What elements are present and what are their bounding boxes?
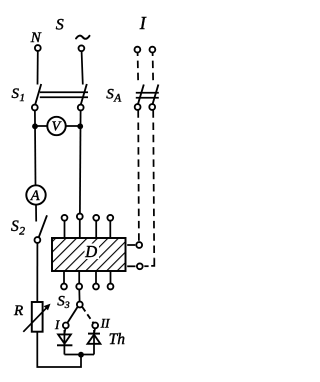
box D top terminal 1 (62, 215, 68, 221)
wire ammeter to S2 (35, 205, 37, 222)
box D bottom terminal 4 (110, 271, 112, 284)
switch S3 lever to position I (solid) (67, 307, 77, 323)
terminal N (35, 45, 41, 51)
box D right terminal lower (127, 265, 135, 267)
switch S2 contact (35, 237, 41, 243)
thyristor right (conducting up) (94, 329, 95, 334)
voltmeter V (47, 117, 65, 135)
switch S3 contact II (92, 323, 98, 329)
svg-text:N: N (30, 30, 42, 46)
wire dashed SA-right down to corner (153, 110, 154, 258)
svg-text:R: R (13, 303, 23, 319)
wire dashed SA-left down to upper right terminal (137, 110, 140, 242)
box D (phase control unit) (52, 238, 126, 271)
wire voltmeter to right rail (66, 125, 80, 127)
svg-text:I: I (139, 13, 147, 33)
ammeter A (26, 185, 45, 204)
wire S2 to resistor R (36, 243, 38, 302)
terminal I-right (150, 47, 156, 53)
svg-text:Th: Th (109, 331, 126, 348)
switch S1 lever left (35, 84, 41, 105)
svg-text:II: II (100, 315, 110, 330)
switch S1 contact left (32, 105, 38, 111)
wire corner into lower right terminal (151, 258, 154, 266)
junction dot below thyristors (78, 352, 84, 358)
svg-text:S: S (56, 16, 64, 33)
svg-text:D: D (84, 242, 97, 261)
switch S1 link bars (40, 91, 88, 93)
svg-text:V: V (52, 120, 62, 135)
switch S3 pivot (77, 302, 83, 308)
box D bottom terminal 3 (95, 271, 97, 284)
box D bottom terminal 1 (63, 271, 65, 284)
wire S1-left down to ammeter (34, 111, 37, 185)
resistor R (adjustable) (32, 302, 43, 332)
switch S1 lever right (81, 84, 87, 105)
box D top terminal 4 (107, 215, 113, 221)
switch SA lever left (138, 85, 144, 105)
switch S3 lever to position II (dashed) (82, 307, 93, 323)
box D bottom terminal 2 (78, 271, 80, 284)
box D right terminal upper (127, 244, 135, 246)
svg-text:I: I (54, 317, 60, 332)
wire dashed I-left to SA (137, 53, 140, 85)
switch S1 contact right (78, 105, 84, 111)
box D top terminal 3 (93, 215, 99, 221)
wire S1-right down to box D (79, 111, 82, 214)
wire terminal2 to S3 pivot (78, 290, 80, 302)
svg-text:A: A (30, 188, 40, 204)
wire joining thyristor cathodes (64, 354, 94, 356)
wire ~ to S1 (82, 52, 83, 85)
wire dashed I-right to SA (152, 53, 155, 85)
resistor R arrow (23, 306, 48, 332)
switch S3 contact I (63, 323, 69, 329)
wire N to S1 (37, 51, 39, 84)
terminal ~ (79, 45, 85, 51)
box D top terminal 2 (77, 214, 83, 220)
switch S2 lever (39, 215, 47, 237)
terminal I-left (135, 47, 141, 53)
junction dot right of voltmeter (77, 123, 83, 129)
switch SA lever right (153, 85, 159, 105)
switch SA contact left (135, 104, 141, 110)
wire return path (37, 332, 81, 368)
wire to voltmeter left (35, 125, 48, 127)
switch SA contact right (149, 104, 155, 110)
thyristor left (conducting down) (64, 329, 65, 334)
junction dot left of voltmeter (32, 123, 38, 129)
switch SA link bars (136, 92, 159, 94)
label ~ (ac terminal) (76, 36, 90, 39)
